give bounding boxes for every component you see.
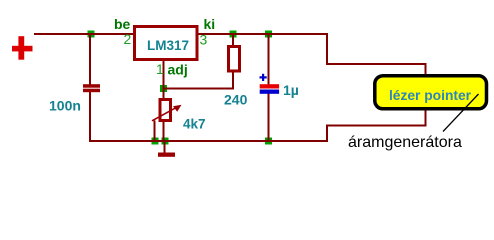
pin label ki xyxy=(204,16,216,32)
svg-text:áramgenerátora: áramgenerátora xyxy=(348,134,462,151)
node C (top rail / 1u junction) xyxy=(265,31,272,38)
wire top rail left xyxy=(34,33,134,35)
wire 100n branch upper xyxy=(89,33,91,85)
svg-text:be: be xyxy=(114,16,131,32)
wire 240 branch upper xyxy=(232,33,234,47)
capacitor C1 100n plates xyxy=(83,84,100,92)
svg-text:adj: adj xyxy=(168,62,188,78)
label 1u xyxy=(283,82,299,98)
node F (bottom rail / pot-ground junction) xyxy=(162,138,169,145)
pin number 2 xyxy=(124,31,132,47)
wire top rail right xyxy=(197,33,328,35)
svg-text:3: 3 xyxy=(200,32,208,48)
svg-text:lézer pointer: lézer pointer xyxy=(389,88,472,103)
node A (top rail / 100n junction) xyxy=(88,31,95,38)
pin label be xyxy=(114,16,131,32)
node E (bottom rail / wiper junction) xyxy=(152,138,159,145)
label 4k7 xyxy=(183,117,206,132)
wire 1u branch upper xyxy=(268,33,270,85)
wire pot bottom xyxy=(163,121,165,143)
wire 100n branch lower xyxy=(89,92,91,142)
wire bottom rail xyxy=(89,140,328,142)
svg-text:4k7: 4k7 xyxy=(183,117,206,132)
supply + terminal xyxy=(12,36,33,60)
wire ground stem xyxy=(164,141,166,153)
wire right vertical lower xyxy=(326,125,328,143)
label 240 xyxy=(224,92,248,108)
pin number 1 xyxy=(156,61,164,77)
wire middle horizontal to load xyxy=(326,63,426,65)
svg-text:1µ: 1µ xyxy=(283,82,299,98)
pin label adj xyxy=(168,62,188,78)
wire wiper drop xyxy=(154,121,156,142)
ground symbol xyxy=(158,153,175,157)
label 100n xyxy=(49,98,81,114)
pin number 3 xyxy=(200,32,208,48)
svg-text:240: 240 xyxy=(224,92,248,108)
wire vertical from load bottom xyxy=(425,109,427,127)
caption aramgeneratora xyxy=(348,134,462,151)
wire 240 branch lower xyxy=(232,71,234,90)
svg-text:1: 1 xyxy=(156,61,164,77)
svg-text:100n: 100n xyxy=(49,98,81,114)
potentiometer P1 body xyxy=(160,100,171,121)
svg-text:LM317: LM317 xyxy=(147,38,189,53)
wire pot top xyxy=(163,88,165,100)
potentiometer wiper arrow xyxy=(152,105,182,121)
wire vertical into load top xyxy=(425,63,427,77)
wire bottom-right horizontal xyxy=(326,125,427,127)
regulator U1 LM317 body xyxy=(135,27,198,60)
node G (bottom rail / 1u junction) xyxy=(265,138,272,145)
svg-text:ki: ki xyxy=(204,16,216,32)
callout leader line xyxy=(443,94,479,132)
wire adj horizontal xyxy=(163,88,235,90)
laser pointer callout box xyxy=(375,76,487,109)
wire right vertical upper xyxy=(326,33,328,64)
capacitor C2 plus mark xyxy=(260,74,267,81)
capacitor C2 1u polarized plates xyxy=(260,84,279,94)
node B (top rail / 240 junction) xyxy=(230,31,237,38)
wire 1u branch lower xyxy=(268,94,270,143)
svg-text:2: 2 xyxy=(124,31,132,47)
node D (adj junction) xyxy=(160,85,167,92)
wire adj pin xyxy=(163,60,165,89)
resistor R1 240 body xyxy=(229,47,240,72)
